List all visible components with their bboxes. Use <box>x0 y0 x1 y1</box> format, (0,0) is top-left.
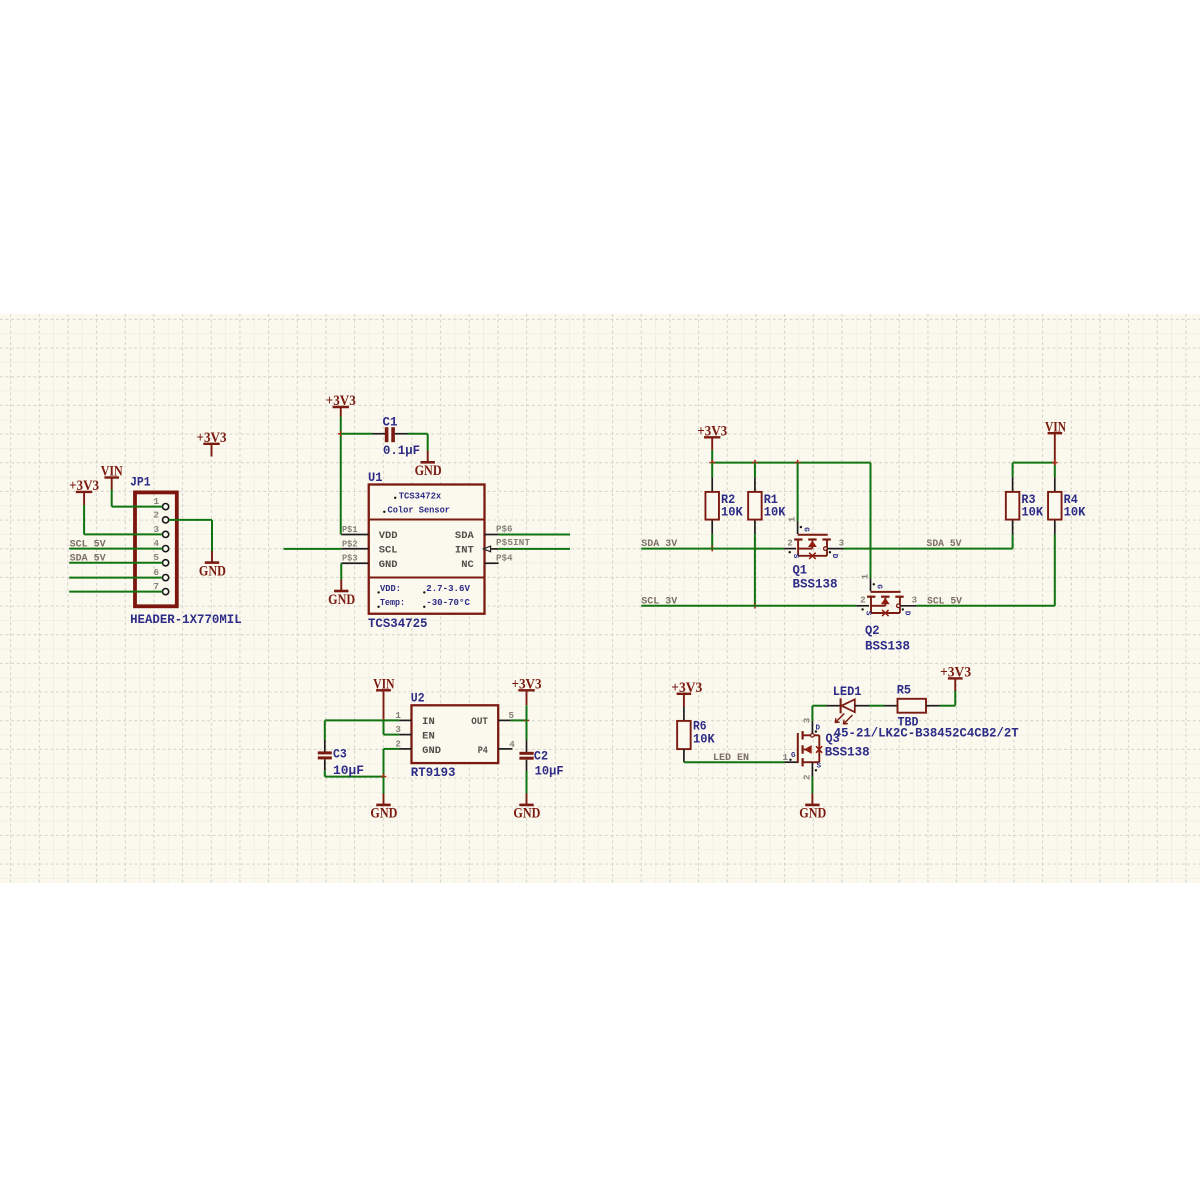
wire C3 top rail <box>325 719 400 721</box>
text VDD: 2.7-3.6V <box>377 583 470 594</box>
power +3V3 (U2 out) <box>512 677 542 721</box>
Q1 gate stub <box>797 521 799 534</box>
svg-text:10µF: 10µF <box>333 764 364 778</box>
svg-text:6: 6 <box>153 567 159 578</box>
svg-text:GND: GND <box>415 463 442 479</box>
svg-text:SCL 5V: SCL 5V <box>927 595 962 606</box>
JP1 pin 3 circle <box>153 524 168 538</box>
U1 pin P$5INT <box>455 537 531 556</box>
U2 pin 5 OUT <box>471 710 514 728</box>
JP1 pin 4 circle <box>153 538 168 552</box>
svg-text:2: 2 <box>802 774 813 780</box>
svg-text:3: 3 <box>802 717 813 723</box>
power VIN (level shifter) <box>1045 419 1066 462</box>
resistor R2 <box>705 463 743 549</box>
ground GND (C1) <box>415 451 442 480</box>
wire SDA 5V to JP1 pin 5 <box>69 562 162 564</box>
svg-text:2.7-3.6V: 2.7-3.6V <box>426 583 470 594</box>
JP1 pin 5 circle <box>153 552 168 566</box>
diode LED1 <box>827 698 870 724</box>
svg-text:4: 4 <box>509 739 515 750</box>
svg-text:P$6: P$6 <box>496 524 513 535</box>
junction VIN/R4 <box>1052 460 1058 466</box>
power +3V3 (R5) <box>940 665 971 706</box>
svg-text:P$1: P$1 <box>342 524 358 535</box>
svg-text:JP1: JP1 <box>130 476 151 490</box>
svg-text:2: 2 <box>395 738 401 749</box>
wire Q3 drain up <box>811 706 813 721</box>
wire Q2 gate drop <box>870 463 872 578</box>
svg-text:VDD: VDD <box>379 531 398 542</box>
svg-text:S: S <box>791 554 799 559</box>
svg-text:GND: GND <box>422 746 441 757</box>
wire SCL 3V <box>641 605 856 607</box>
resistor R4 <box>1048 463 1086 606</box>
wire SCL 5V to JP1 pin 4 <box>69 548 162 550</box>
svg-text:1: 1 <box>787 516 798 522</box>
wire INT out <box>499 548 570 550</box>
junction R1/SCL 3V <box>752 603 758 609</box>
power +3V3 (floating, top) <box>197 430 227 457</box>
ground GND (U1) <box>328 580 355 608</box>
svg-text:G: G <box>801 527 809 532</box>
svg-text:GND: GND <box>370 806 397 822</box>
svg-text:10K: 10K <box>721 506 743 520</box>
svg-text:BSS138: BSS138 <box>865 639 910 653</box>
wire SDA 5V <box>844 548 1013 550</box>
wire to JP1 pin 7 <box>69 591 162 593</box>
svg-text:BSS138: BSS138 <box>825 745 870 759</box>
U1 pin P$6 SDA <box>455 524 513 543</box>
wire LED EN <box>684 761 785 763</box>
svg-text:GND: GND <box>513 806 540 822</box>
svg-text:Q1: Q1 <box>793 563 808 577</box>
connector JP1 body <box>135 492 177 606</box>
svg-text:SDA 3V: SDA 3V <box>641 538 677 549</box>
svg-text:G: G <box>874 584 882 589</box>
U2 pin 4 P4 <box>478 739 516 757</box>
svg-text:SCL: SCL <box>379 546 398 557</box>
wire VIN rail <box>1013 462 1055 464</box>
svg-text:GND: GND <box>199 563 226 579</box>
svg-text:P4: P4 <box>478 746 488 757</box>
svg-text:3: 3 <box>839 537 845 548</box>
svg-text:7: 7 <box>153 581 159 592</box>
svg-text:EN: EN <box>422 731 435 742</box>
junction +3V3/C1 <box>338 431 344 437</box>
wire U2 GND down <box>384 749 400 777</box>
svg-text:VDD:: VDD: <box>380 583 401 594</box>
wire LED to R5 <box>869 705 884 707</box>
svg-text:3: 3 <box>395 724 401 735</box>
svg-text:P$5INT: P$5INT <box>496 537 530 548</box>
svg-text:1: 1 <box>783 752 789 763</box>
wire R5 to +3V3 <box>940 705 956 707</box>
svg-text:C3: C3 <box>333 748 347 762</box>
svg-text:TBD: TBD <box>898 716 919 730</box>
power +3V3 (JP1) <box>69 478 99 534</box>
ground GND (Q3) <box>799 794 826 822</box>
svg-text:OUT: OUT <box>471 717 488 728</box>
transistor Q3 <box>783 717 870 780</box>
IC U2 body <box>412 705 499 763</box>
text Temp: -30-70C <box>377 597 470 608</box>
svg-text:GND: GND <box>379 560 398 571</box>
svg-text:D: D <box>830 554 838 559</box>
svg-text:3: 3 <box>912 595 918 606</box>
svg-text:2: 2 <box>860 595 866 606</box>
svg-text:10K: 10K <box>764 506 786 520</box>
svg-text:S: S <box>864 611 872 616</box>
svg-text:-30-70°C: -30-70°C <box>426 597 470 608</box>
junction rail/Q1 gate <box>795 460 801 466</box>
svg-text:5: 5 <box>509 710 515 721</box>
wire +3V3 down to U1 VDD <box>340 417 342 535</box>
svg-text:R6: R6 <box>693 719 707 733</box>
svg-text:10K: 10K <box>1021 506 1043 520</box>
svg-text:0.1µF: 0.1µF <box>383 444 420 458</box>
svg-text:1: 1 <box>860 573 871 579</box>
svg-text:SCL 3V: SCL 3V <box>641 595 677 606</box>
svg-text:C2: C2 <box>534 749 548 763</box>
wire JP1 pin 2 to GND (horiz) <box>169 519 212 521</box>
JP1 pin 7 circle <box>153 581 168 595</box>
svg-text:U2: U2 <box>411 692 425 706</box>
IC U1 body <box>369 485 485 614</box>
text Color Sensor <box>383 504 450 515</box>
U2 pin 2 GND <box>395 738 441 757</box>
text TCS3472x <box>394 491 441 502</box>
wire SCL 5V <box>916 605 1054 607</box>
svg-text:4: 4 <box>153 538 159 549</box>
power +3V3 (U1) <box>326 393 356 416</box>
svg-text:45-21/LK2C-B38452C4CB2/2T: 45-21/LK2C-B38452C4CB2/2T <box>834 727 1019 741</box>
svg-text:GND: GND <box>799 806 826 822</box>
svg-text:Q2: Q2 <box>865 624 880 638</box>
svg-text:D: D <box>903 611 911 616</box>
wire Q3 to LED <box>812 705 826 707</box>
junction rail/R2 <box>709 460 715 466</box>
wire SCL to left edge <box>284 548 342 550</box>
junction GND/C3 <box>381 774 387 780</box>
ground GND (U2) <box>370 777 397 822</box>
U1 pin P$2 SCL <box>341 538 397 556</box>
svg-text:Temp:: Temp: <box>380 597 405 608</box>
svg-text:2: 2 <box>787 537 793 548</box>
svg-text:10K: 10K <box>693 732 715 746</box>
wire Q3 source down <box>811 777 813 794</box>
svg-text:G: G <box>791 752 796 760</box>
JP1 pin 6 circle <box>153 567 168 581</box>
svg-text:LED1: LED1 <box>833 685 862 699</box>
U1 pin P$3 GND <box>341 553 397 571</box>
resistor R6 <box>677 707 715 762</box>
wire VIN to EN <box>384 720 400 734</box>
resistor R5 <box>884 684 940 730</box>
svg-text:SDA: SDA <box>455 531 475 542</box>
svg-text:U1: U1 <box>368 471 383 485</box>
svg-text:5: 5 <box>153 552 159 563</box>
power VIN (U2) <box>373 676 394 720</box>
svg-text:BSS138: BSS138 <box>793 577 838 591</box>
junction R2/SDA 3V <box>709 546 715 552</box>
wire C1 to GND <box>427 434 429 451</box>
svg-text:TCS3472x: TCS3472x <box>399 491 442 502</box>
wire OUT to +3V3 <box>511 719 527 721</box>
svg-text:P$3: P$3 <box>342 553 358 564</box>
capacitor C2 <box>519 720 563 793</box>
ground GND (C2) <box>513 794 540 822</box>
svg-text:S: S <box>817 762 822 770</box>
svg-text:1: 1 <box>153 496 159 507</box>
svg-text:SDA 5V: SDA 5V <box>927 538 962 549</box>
resistor R1 <box>748 463 786 606</box>
wire to JP1 pin 6 <box>69 577 162 579</box>
svg-text:RT9193: RT9193 <box>411 765 456 780</box>
svg-text:C1: C1 <box>383 416 398 430</box>
svg-text:P$4: P$4 <box>496 553 513 564</box>
Q2 gate stub <box>870 578 872 591</box>
JP1 pin 2 circle <box>153 509 168 523</box>
JP1 pin 1 circle <box>153 496 168 510</box>
junction VIN/IN/C3 <box>381 718 387 724</box>
svg-text:1: 1 <box>395 710 401 721</box>
svg-text:10µF: 10µF <box>535 764 564 778</box>
svg-text:10K: 10K <box>1064 506 1086 520</box>
svg-text:GND: GND <box>328 592 355 608</box>
svg-text:TCS34725: TCS34725 <box>368 616 428 631</box>
power +3V3 (level shifter) <box>697 424 727 463</box>
junction rail/R1 <box>752 460 758 466</box>
svg-text:HEADER-1X770MIL: HEADER-1X770MIL <box>130 613 242 627</box>
junction OUT/C2 <box>524 718 530 724</box>
resistor R3 <box>1006 463 1044 549</box>
capacitor C1 <box>341 416 428 458</box>
wire VIN to JP1 pin 1 <box>112 506 163 508</box>
transistor Q2 <box>856 573 917 653</box>
wire +3V3 to JP1 pin 3 <box>84 533 162 535</box>
U1 pin P$4 NC <box>461 553 513 571</box>
svg-text:2: 2 <box>153 509 159 520</box>
transistor Q1 <box>784 516 845 591</box>
svg-text:R5: R5 <box>897 684 911 698</box>
wire +3V3 rail <box>712 462 870 464</box>
svg-text:INT: INT <box>455 546 474 557</box>
svg-text:Color Sensor: Color Sensor <box>388 504 451 515</box>
svg-text:3: 3 <box>153 524 159 535</box>
svg-text:IN: IN <box>422 717 435 728</box>
ground GND (JP1 pin 2) <box>199 520 226 580</box>
svg-text:NC: NC <box>461 560 474 571</box>
wire C3 bottom rail <box>325 776 384 778</box>
wire SDA 3V <box>641 548 783 550</box>
wire Q1 gate drop <box>797 463 799 521</box>
wire U1 GND down <box>340 563 342 579</box>
U1 pin P$1 VDD <box>341 524 397 542</box>
capacitor C3 <box>318 720 364 778</box>
power +3V3 (R6) <box>671 680 702 707</box>
svg-text:P$2: P$2 <box>342 538 358 549</box>
U2 pin 1 IN <box>395 710 434 728</box>
power VIN (JP1) <box>101 464 123 507</box>
U2 pin 3 EN <box>395 724 434 742</box>
wire SDA out <box>499 534 570 536</box>
